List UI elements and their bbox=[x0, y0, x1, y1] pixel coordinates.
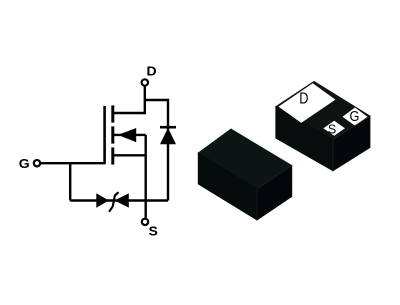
mosfet Q1 channel bar (drain) bbox=[111, 105, 114, 122]
right face bbox=[257, 166, 292, 221]
pad D bbox=[279, 83, 336, 123]
wire: source column down to S terminal bbox=[144, 135, 146, 218]
esd diode D2 right triangle bbox=[114, 193, 128, 207]
terminal D circle bbox=[142, 79, 148, 85]
left face bbox=[276, 107, 333, 171]
edge highlight box2 front vertical bbox=[256, 189, 258, 220]
wire: top rail from D column to body-diode column bbox=[145, 100, 168, 201]
mosfet Q1 body arrow bbox=[118, 128, 136, 142]
esd diode D2 center zener bar bbox=[110, 193, 118, 211]
wire: drain stub bbox=[112, 112, 145, 114]
mosfet Q1 channel bar (source) bbox=[111, 147, 114, 164]
svg-text:G: G bbox=[350, 108, 360, 124]
edge highlight box2 top/right bbox=[257, 166, 292, 190]
edge highlight box1 top/right bbox=[333, 116, 370, 139]
top face bbox=[198, 129, 292, 189]
edge highlight box1 front vertical bbox=[332, 139, 334, 171]
svg-text:D: D bbox=[147, 64, 158, 78]
left face bbox=[198, 153, 257, 220]
svg-text:D: D bbox=[299, 90, 308, 108]
pad G bbox=[343, 108, 368, 126]
wire: body stub to source column bbox=[114, 134, 146, 136]
body diode D1 cathode bar bbox=[160, 126, 176, 129]
terminal S circle bbox=[142, 219, 148, 225]
package top-view box (back-right, with pads) bbox=[276, 81, 370, 171]
mosfet Q1 channel bar (body) bbox=[111, 126, 114, 143]
terminal G circle bbox=[34, 160, 40, 166]
right face bbox=[333, 116, 370, 171]
svg-text:S: S bbox=[149, 224, 158, 238]
svg-text:G: G bbox=[19, 157, 30, 171]
wire: source stub bbox=[112, 154, 146, 156]
package bottom-view box (front-left, plain) bbox=[198, 129, 292, 220]
top face bbox=[276, 81, 370, 139]
mosfet Q1 gate line bbox=[103, 106, 106, 164]
pad S bbox=[323, 121, 345, 136]
wire: bottom rail bbox=[70, 199, 168, 201]
svg-text:S: S bbox=[328, 121, 336, 136]
wire: G to gate bbox=[41, 162, 106, 164]
wire: D terminal down to drain stub bbox=[144, 86, 146, 114]
body diode D1 triangle bbox=[160, 128, 176, 144]
esd diode D2 left triangle bbox=[96, 193, 109, 207]
wire: gate branch down to ESD diode bbox=[69, 163, 71, 200]
